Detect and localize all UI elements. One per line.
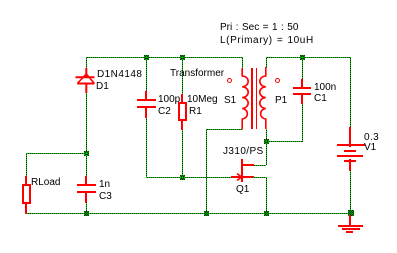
wire V1 upper	[350, 57, 351, 127]
wire S1 bottom horizontal	[206, 129, 242, 130]
node S1 bottom junction	[204, 211, 209, 216]
wire C1 upper	[302, 57, 303, 79]
wire top rail secondary side	[86, 57, 243, 58]
wire C2 lower	[146, 118, 147, 178]
polarity dot S1	[227, 78, 232, 83]
label S1	[224, 95, 236, 106]
node C1 top junction	[300, 55, 305, 60]
label P1	[275, 95, 287, 106]
wire S1 bottom vertical	[206, 129, 207, 213]
transistor Q1 J310 JFET	[241, 159, 243, 182]
node C3 bottom junction	[84, 211, 89, 216]
label title line 1	[220, 22, 298, 33]
transformer core	[251, 68, 253, 129]
polarity dot P1	[275, 78, 280, 83]
label 1n	[99, 179, 110, 190]
label C2	[158, 106, 171, 117]
wire source vertical	[266, 177, 267, 213]
label J310/PS	[223, 146, 264, 157]
label D1	[96, 81, 109, 92]
wire RLoad branch vertical	[26, 153, 27, 176]
wire C1 lower	[302, 104, 303, 142]
wire S1 top lead	[242, 57, 243, 69]
wire RLoad branch horizontal	[27, 153, 86, 154]
node P1 C1 drain junction	[264, 139, 269, 144]
wire R1 lower	[182, 130, 183, 177]
resistor RLoad	[25, 176, 27, 185]
wire left branch lower (D1 to RLoad node)	[86, 93, 87, 153]
ground	[349, 215, 351, 226]
label Q1	[236, 184, 249, 195]
transformer winding S1	[236, 68, 250, 130]
node C2 top junction	[144, 55, 149, 60]
wire P1 bottom lead	[266, 129, 267, 141]
label RLoad	[31, 177, 60, 188]
node RLoad branch junction	[84, 151, 89, 156]
label 100n	[314, 82, 336, 93]
capacitor C1	[301, 79, 303, 88]
wire C3 lower	[86, 203, 87, 213]
label 10Meg	[187, 94, 218, 105]
transformer winding P1	[258, 67, 272, 130]
wire left branch upper (top rail to D1)	[86, 57, 87, 69]
wire bottom rail	[27, 213, 351, 214]
wire V1 lower	[350, 171, 351, 213]
wire P1 to C1 bottom link	[266, 141, 302, 142]
label R1	[189, 106, 202, 117]
wire gate horizontal	[146, 177, 231, 178]
diode D1	[74, 68, 99, 94]
wire top rail primary side	[266, 57, 351, 58]
voltage source V1 battery	[349, 127, 351, 147]
wire drain horizontal	[253, 165, 266, 166]
wire P1 top lead	[266, 57, 267, 68]
node ground junction	[348, 210, 354, 216]
wire C2 upper	[146, 57, 147, 91]
capacitor C3	[85, 176, 87, 185]
label Transformer	[170, 68, 224, 79]
label C1	[314, 93, 327, 104]
label C3	[99, 191, 112, 202]
label title line 2	[220, 35, 314, 46]
label 100p	[158, 94, 180, 105]
wire drain vertical	[266, 141, 267, 165]
wire R1 upper	[182, 57, 183, 94]
label V1	[364, 142, 376, 153]
capacitor C2	[145, 91, 147, 100]
resistor R1	[181, 94, 183, 103]
node source bottom junction	[264, 211, 269, 216]
node R1 top junction	[180, 55, 185, 60]
label D1N4148	[97, 69, 142, 80]
node gate wire R1 junction	[180, 175, 185, 180]
wire C3 upper	[86, 153, 87, 176]
label 0.3	[364, 132, 379, 143]
wire source horizontal	[253, 177, 266, 178]
